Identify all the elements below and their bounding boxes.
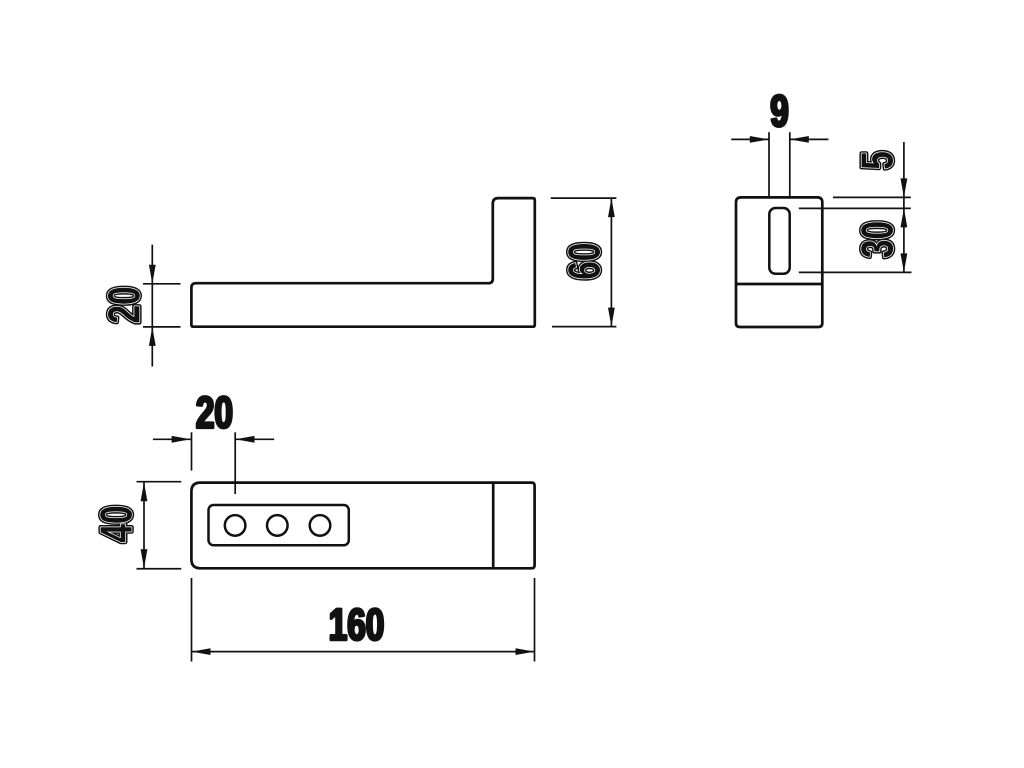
dimension 60: extension line top <box>551 197 617 199</box>
dimension 20: extension tick top <box>143 283 181 285</box>
dimension 160: extension line right <box>534 578 536 662</box>
dimension 60: arrowhead down <box>608 308 615 327</box>
dimension 40: arrowhead up <box>141 482 148 501</box>
dimension 40: extension tick top <box>137 481 182 483</box>
dimension 60: extension line bottom <box>552 326 616 328</box>
label 20 (top view) <box>197 396 232 428</box>
label 30 <box>861 222 893 257</box>
dimension 5/30: extension line at body top <box>833 196 911 198</box>
dimension 40: dimension line <box>143 482 145 568</box>
dimension 160: dimension line <box>192 651 535 653</box>
end-cap edge line <box>492 483 495 569</box>
end view outer body <box>736 197 822 327</box>
hole 2 <box>267 515 288 536</box>
dimension 20: arrowhead up <box>149 327 156 346</box>
dimension 9: arrowhead left-pointing <box>790 136 809 143</box>
dimension 160: extension line left <box>191 578 193 662</box>
dimension 20: extension tick bottom <box>143 326 181 328</box>
dimension 5/30: extension line at slot bottom <box>799 271 912 273</box>
dimension 20 top view: arrowhead right-pointing <box>172 436 191 443</box>
dimension 60: dimension line <box>610 198 612 327</box>
dimension 30: arrowhead up <box>901 208 908 227</box>
dimension 5: arrowhead down <box>901 178 908 197</box>
end view divider edge <box>736 283 822 286</box>
label 60 <box>568 244 600 278</box>
dimension 60: arrowhead up <box>608 198 615 217</box>
dimension 20 top view: extension line right <box>234 432 236 494</box>
label 5 <box>862 152 893 169</box>
dimension 9: dimension line left <box>731 138 769 140</box>
label 20 (side view) <box>108 288 140 323</box>
dimension 9: arrowhead right-pointing <box>750 136 769 143</box>
dimension 160: arrowhead right-pointing <box>516 648 535 655</box>
L-profile outline <box>191 198 534 327</box>
hole 3 <box>310 515 331 536</box>
dimension 9: extension line right <box>789 132 791 196</box>
dimension 20 top view: dimension line right tail <box>236 438 275 440</box>
dimension 40: arrowhead down <box>141 549 148 568</box>
label 40 <box>100 507 132 542</box>
slot pocket <box>209 505 349 545</box>
label 160 <box>331 608 383 640</box>
dimension 20: arrowhead down <box>149 265 156 284</box>
dimension 20 top view: dimension line left tail <box>153 438 191 440</box>
top view outer body <box>191 483 534 569</box>
slot (rounded) <box>769 208 789 274</box>
dimension 20: dimension line <box>151 245 153 367</box>
dimension 20 top view: extension line left <box>191 432 193 470</box>
dimension 5/30: dimension line <box>903 142 905 272</box>
dimension 160: arrowhead left-pointing <box>192 648 211 655</box>
dimension 30: arrowhead down <box>901 253 908 272</box>
dimension 9: dimension line right <box>790 138 829 140</box>
label 9 <box>771 95 787 127</box>
dimension 40: extension tick bottom <box>137 568 182 570</box>
dimension 5/30: extension line at slot top <box>799 207 911 209</box>
dimension 20 top view: arrowhead left-pointing <box>236 436 255 443</box>
hole 1 <box>225 515 246 536</box>
dimension 9: extension line left <box>768 132 770 196</box>
